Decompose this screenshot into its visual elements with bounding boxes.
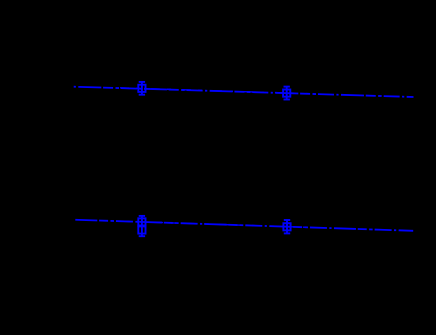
bottom dashed overlap line — [120, 221, 310, 227]
errorbar marker B1a (upper square of double point) — [138, 216, 145, 236]
bottom dashed fit line — [74, 220, 414, 231]
errorbar marker B2 — [283, 220, 290, 233]
errorbar marker B1b (lower square of double point) — [138, 226, 145, 236]
top dashed overlap line — [120, 88, 310, 94]
errorbar marker T2 — [283, 87, 290, 100]
errorbar marker T1 — [138, 82, 145, 95]
top dashed fit line — [74, 87, 414, 97]
